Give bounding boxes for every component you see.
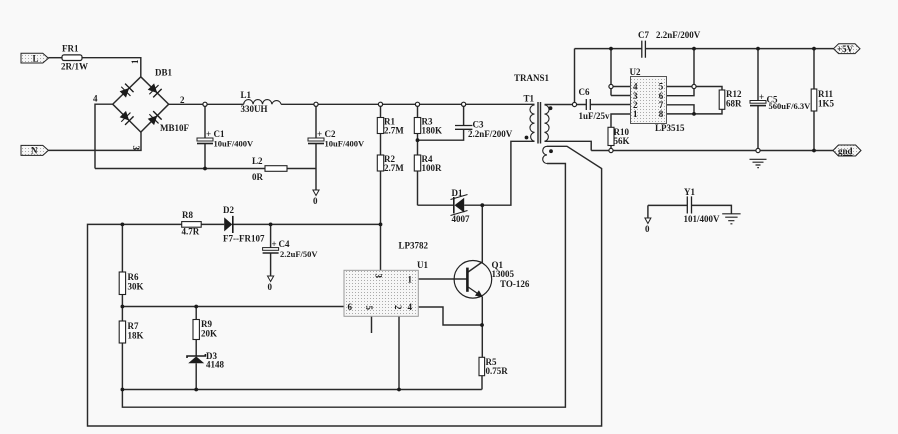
svg-text:0: 0 xyxy=(313,196,318,206)
wire bottom line A xyxy=(122,389,481,391)
svg-text:1K5: 1K5 xyxy=(818,99,835,109)
svg-text:LP3782: LP3782 xyxy=(399,241,429,251)
capacitor Y1 plates xyxy=(687,196,691,213)
bridge diode bottom-left xyxy=(118,110,134,126)
capacitor C3 stems and link to R3/R4 node xyxy=(418,104,464,140)
svg-text:2: 2 xyxy=(393,305,403,310)
junction R9 top xyxy=(194,305,198,309)
capacitor C5 plates xyxy=(750,101,766,104)
terminal tag gnd xyxy=(833,145,861,156)
junction feedback line / C4 xyxy=(269,223,273,227)
svg-text:1uF/25v: 1uF/25v xyxy=(579,111,611,121)
capacitor C2 stems xyxy=(315,104,317,190)
capacitor C4 stems xyxy=(270,224,272,276)
junction +5V rail / U2 pins 3-4 riser xyxy=(609,47,613,51)
resistor R2 xyxy=(377,155,383,171)
bridge diode top-right xyxy=(146,82,162,98)
resistor R10 xyxy=(608,127,614,145)
svg-text:C2: C2 xyxy=(325,129,336,139)
svg-text:Y1: Y1 xyxy=(684,187,695,197)
capacitor C5 stems xyxy=(757,49,759,151)
svg-text:0: 0 xyxy=(645,224,650,234)
capacitor C1 stems xyxy=(204,104,206,168)
svg-text:DB1: DB1 xyxy=(155,68,173,78)
terminal tag N xyxy=(21,145,48,155)
wire bridge pin4 to left vertical xyxy=(95,104,113,168)
wire N to bridge pin3 xyxy=(48,132,141,150)
wire aux winding top diagonal xyxy=(88,146,602,426)
zener diode D3 xyxy=(187,354,205,358)
node junction rail / C1 xyxy=(203,102,207,106)
svg-text:560uF/6.3V: 560uF/6.3V xyxy=(769,101,812,111)
resistor R9 stems xyxy=(195,307,197,356)
svg-text:180K: 180K xyxy=(422,126,443,136)
IC U1 box xyxy=(344,270,418,316)
svg-text:56K: 56K xyxy=(614,136,630,146)
svg-text:TO-126: TO-126 xyxy=(500,279,530,289)
wire secondary bottom jog xyxy=(545,141,592,150)
transformer T1 primary winding xyxy=(530,105,535,141)
wire DC+ rail bridge to L1 xyxy=(169,103,244,105)
svg-text:4007: 4007 xyxy=(452,214,471,224)
wire L to FR1 xyxy=(48,57,62,59)
capacitor C7 plates xyxy=(642,41,646,58)
junction Q1 emitter / U1 pin4 xyxy=(480,323,484,327)
polarity dot primary xyxy=(525,136,529,140)
svg-text:2.2nF/200V: 2.2nF/200V xyxy=(656,30,701,40)
node junction gnd rail / C5 xyxy=(756,148,760,152)
node junction secondary top / C7 riser xyxy=(572,102,576,106)
svg-text:R12: R12 xyxy=(726,89,742,99)
wire U1 pin1 to Q1 base xyxy=(418,278,467,280)
svg-text:U2: U2 xyxy=(630,67,641,77)
svg-text:6: 6 xyxy=(348,302,353,312)
bridge DB1 diamond xyxy=(113,77,169,132)
resistor R9 xyxy=(193,320,199,340)
resistor R11 xyxy=(811,89,817,111)
wire aux winding bottom loop xyxy=(122,164,565,408)
svg-text:C7: C7 xyxy=(638,30,649,40)
resistor R6 xyxy=(119,272,125,295)
junction feedback line / R6 xyxy=(121,223,125,227)
transformer T1 core xyxy=(538,102,541,144)
wire FR1 to bridge pin1 xyxy=(82,58,141,77)
junction U2 pins 7-8 xyxy=(692,112,696,116)
svg-text:101/400V: 101/400V xyxy=(684,214,721,224)
bridge diode bottom-right xyxy=(146,111,162,127)
svg-text:R9: R9 xyxy=(201,319,212,329)
junction gnd rail / R11 xyxy=(812,149,816,153)
svg-text:0.75R: 0.75R xyxy=(486,366,509,376)
transistor Q1 emitter with arrow xyxy=(467,287,482,297)
svg-text:N: N xyxy=(31,146,38,156)
resistor L2 xyxy=(265,166,287,172)
polarity dot secondary xyxy=(549,106,553,110)
svg-text:4148: 4148 xyxy=(206,360,225,370)
svg-text:4: 4 xyxy=(93,94,98,104)
ground 0 below C4 xyxy=(268,276,274,282)
capacitor C1 plates xyxy=(197,138,213,141)
wire D1 to primary bottom xyxy=(464,141,534,205)
junction +5V rail / C5 xyxy=(756,47,760,51)
svg-text:C6: C6 xyxy=(579,87,590,97)
resistor chain R6 R7 stems xyxy=(121,224,123,389)
capacitor C4 plates xyxy=(263,248,279,251)
resistor R12 xyxy=(719,90,725,109)
svg-text:L2: L2 xyxy=(252,156,263,166)
wire R6/R7 node to U1 pin6 xyxy=(122,306,344,308)
svg-text:2.2uF/50V: 2.2uF/50V xyxy=(280,249,318,259)
wire bottom DC- rail left of L2 xyxy=(95,168,265,170)
svg-text:2.7M: 2.7M xyxy=(384,126,404,136)
junction bottom line A / R7 xyxy=(121,388,125,392)
wire R4 to D1 xyxy=(418,204,454,206)
junction +5V rail / R11 xyxy=(812,47,816,51)
wire riser C7 left xyxy=(574,49,576,105)
resistor R11 stems xyxy=(813,49,815,151)
svg-text:D2: D2 xyxy=(223,205,234,215)
svg-text:+: + xyxy=(317,129,322,139)
node junction rail / C3 xyxy=(462,102,466,106)
svg-text:L1: L1 xyxy=(241,90,252,100)
wire U2 pin6 riser xyxy=(667,49,695,96)
svg-text:8: 8 xyxy=(659,109,664,119)
svg-text:330UH: 330UH xyxy=(241,104,268,114)
svg-text:+: + xyxy=(206,129,211,139)
ground 0 below C2 xyxy=(313,190,319,196)
node junction U2 pin4 xyxy=(609,84,613,88)
junction +5V rail / U2 pins 5-6 riser xyxy=(692,47,696,51)
resistor R4 xyxy=(414,155,420,171)
svg-text:2R/1W: 2R/1W xyxy=(61,62,88,72)
diode D2 xyxy=(224,217,232,231)
capacitor C6 plates xyxy=(586,99,590,110)
svg-text:4.7R: 4.7R xyxy=(182,227,200,237)
resistor R7 xyxy=(119,321,125,343)
junction bottom line A / D3 xyxy=(194,388,198,392)
wire secondary top to C6 xyxy=(545,104,587,106)
svg-text:2.7M: 2.7M xyxy=(384,163,404,173)
svg-text:FR1: FR1 xyxy=(62,44,79,54)
svg-text:C4: C4 xyxy=(279,239,290,249)
wire Q1 collector riser xyxy=(467,205,482,272)
svg-text:L: L xyxy=(33,54,39,64)
junction D1 line / Q1 collector xyxy=(480,203,484,207)
capacitor Y1 right wire to earth xyxy=(692,205,732,213)
node junction rail / C2 xyxy=(314,102,318,106)
terminal tag L xyxy=(21,53,48,63)
transistor Q1 base bar xyxy=(466,268,469,292)
bridge diode top-left xyxy=(118,83,134,99)
wire U2 pin5 to R12 top xyxy=(667,87,723,91)
svg-text:U1: U1 xyxy=(417,260,428,270)
resistor R5 xyxy=(479,357,485,375)
node junction gnd rail / R10 xyxy=(609,148,613,152)
wire U2 pin7 xyxy=(667,105,695,114)
svg-text:C3: C3 xyxy=(473,120,484,130)
wire U1 pin4 to emitter node xyxy=(418,307,482,325)
svg-text:0R: 0R xyxy=(252,172,264,182)
junction DC- rail / C1 xyxy=(203,167,207,171)
wire D2 to R2 node xyxy=(233,223,381,225)
svg-text:30K: 30K xyxy=(128,282,144,292)
svg-text:D1: D1 xyxy=(452,188,463,198)
svg-text:+: + xyxy=(272,239,277,249)
junction R3/R4 node / C3 xyxy=(416,138,420,142)
svg-text:3: 3 xyxy=(131,146,141,151)
svg-text:0: 0 xyxy=(268,282,273,292)
wire feedback line to R8 xyxy=(122,223,181,225)
wire C6 to U2 pin2 xyxy=(590,104,630,106)
svg-text:13005: 13005 xyxy=(492,269,515,279)
svg-text:R7: R7 xyxy=(128,321,139,331)
svg-text:+: + xyxy=(759,92,764,102)
wire U1 pin2 stub xyxy=(398,316,400,389)
node junction rail / R3 xyxy=(415,102,419,106)
wire bottom DC- rail right of L2 xyxy=(287,168,316,170)
svg-text:T1: T1 xyxy=(524,94,535,104)
svg-text:2.2nF/200V: 2.2nF/200V xyxy=(468,129,513,139)
junction feedback line / R2 / U1 pin3 xyxy=(379,223,383,227)
svg-text:4: 4 xyxy=(408,302,413,312)
svg-text:5: 5 xyxy=(364,306,374,311)
svg-text:1: 1 xyxy=(633,109,638,119)
fuse resistor FR1 xyxy=(62,55,82,61)
svg-text:R8: R8 xyxy=(182,210,193,220)
svg-text:2: 2 xyxy=(180,95,185,105)
svg-text:C1: C1 xyxy=(214,129,225,139)
resistor chain R3 R4 stems xyxy=(417,104,419,205)
IC U2 box xyxy=(631,77,667,124)
junction R6/R7 node xyxy=(121,305,125,309)
svg-text:100R: 100R xyxy=(422,163,443,173)
svg-text:R6: R6 xyxy=(128,272,139,282)
svg-text:10uF/400V: 10uF/400V xyxy=(325,139,366,149)
capacitor C2 plates xyxy=(308,138,324,141)
wire +5V rail left of C7 xyxy=(575,48,642,50)
earth ground right of Y1 xyxy=(722,214,740,224)
earth ground below C5 xyxy=(750,159,767,167)
transformer T1 secondary winding xyxy=(545,105,550,141)
resistor R1 xyxy=(377,118,383,134)
svg-text:gnd: gnd xyxy=(838,146,853,156)
wire secondary gnd rail xyxy=(591,150,833,152)
svg-text:1: 1 xyxy=(130,59,140,64)
svg-text:20K: 20K xyxy=(201,329,217,339)
wire +5V rail right of C7 xyxy=(645,48,833,50)
svg-text:TRANS1: TRANS1 xyxy=(514,73,550,83)
svg-text:MB10F: MB10F xyxy=(160,123,189,133)
inductor L1 coil xyxy=(244,100,281,105)
polarity dot aux xyxy=(549,149,553,153)
transformer T1 aux winding xyxy=(543,146,547,163)
terminal tag +5V xyxy=(834,44,861,54)
svg-text:F7--FR107: F7--FR107 xyxy=(223,234,265,244)
wire U1 pin5 stub xyxy=(371,316,373,333)
svg-text:LP3515: LP3515 xyxy=(655,123,685,133)
svg-text:R11: R11 xyxy=(818,89,834,99)
capacitor C3 plates xyxy=(455,126,472,130)
transistor Q1 circle xyxy=(454,261,492,299)
node junction U2 pin5 xyxy=(692,84,696,88)
capacitor Y1 left wire xyxy=(648,205,687,218)
wire U2 pin1 to R10 xyxy=(611,114,631,151)
svg-text:3: 3 xyxy=(374,274,384,279)
diode D1 xyxy=(453,197,455,213)
wire R8 to D2 xyxy=(201,223,224,225)
ground 0 left of Y1 xyxy=(645,218,651,224)
svg-text:10uF/400V: 10uF/400V xyxy=(214,139,255,149)
wire riser U2 pins 4 3 xyxy=(611,49,631,96)
svg-text:1: 1 xyxy=(408,275,413,285)
svg-text:68R: 68R xyxy=(726,99,742,109)
resistor R8 xyxy=(182,222,202,228)
junction bottom line A / U1 pin2 xyxy=(397,388,401,392)
wire DC+ rail L1 to transformer primary xyxy=(281,103,534,105)
wire U2 pin8 to R12 bottom xyxy=(667,109,723,114)
svg-text:18K: 18K xyxy=(128,331,144,341)
svg-text:+5V: +5V xyxy=(837,44,854,54)
node junction rail / R1 xyxy=(378,102,382,106)
wire Q1 emitter riser to R5 xyxy=(481,297,483,390)
resistor R3 xyxy=(414,118,420,134)
diode D3 to bottom line xyxy=(195,363,197,389)
resistor chain R1 R2 stems xyxy=(380,104,382,270)
